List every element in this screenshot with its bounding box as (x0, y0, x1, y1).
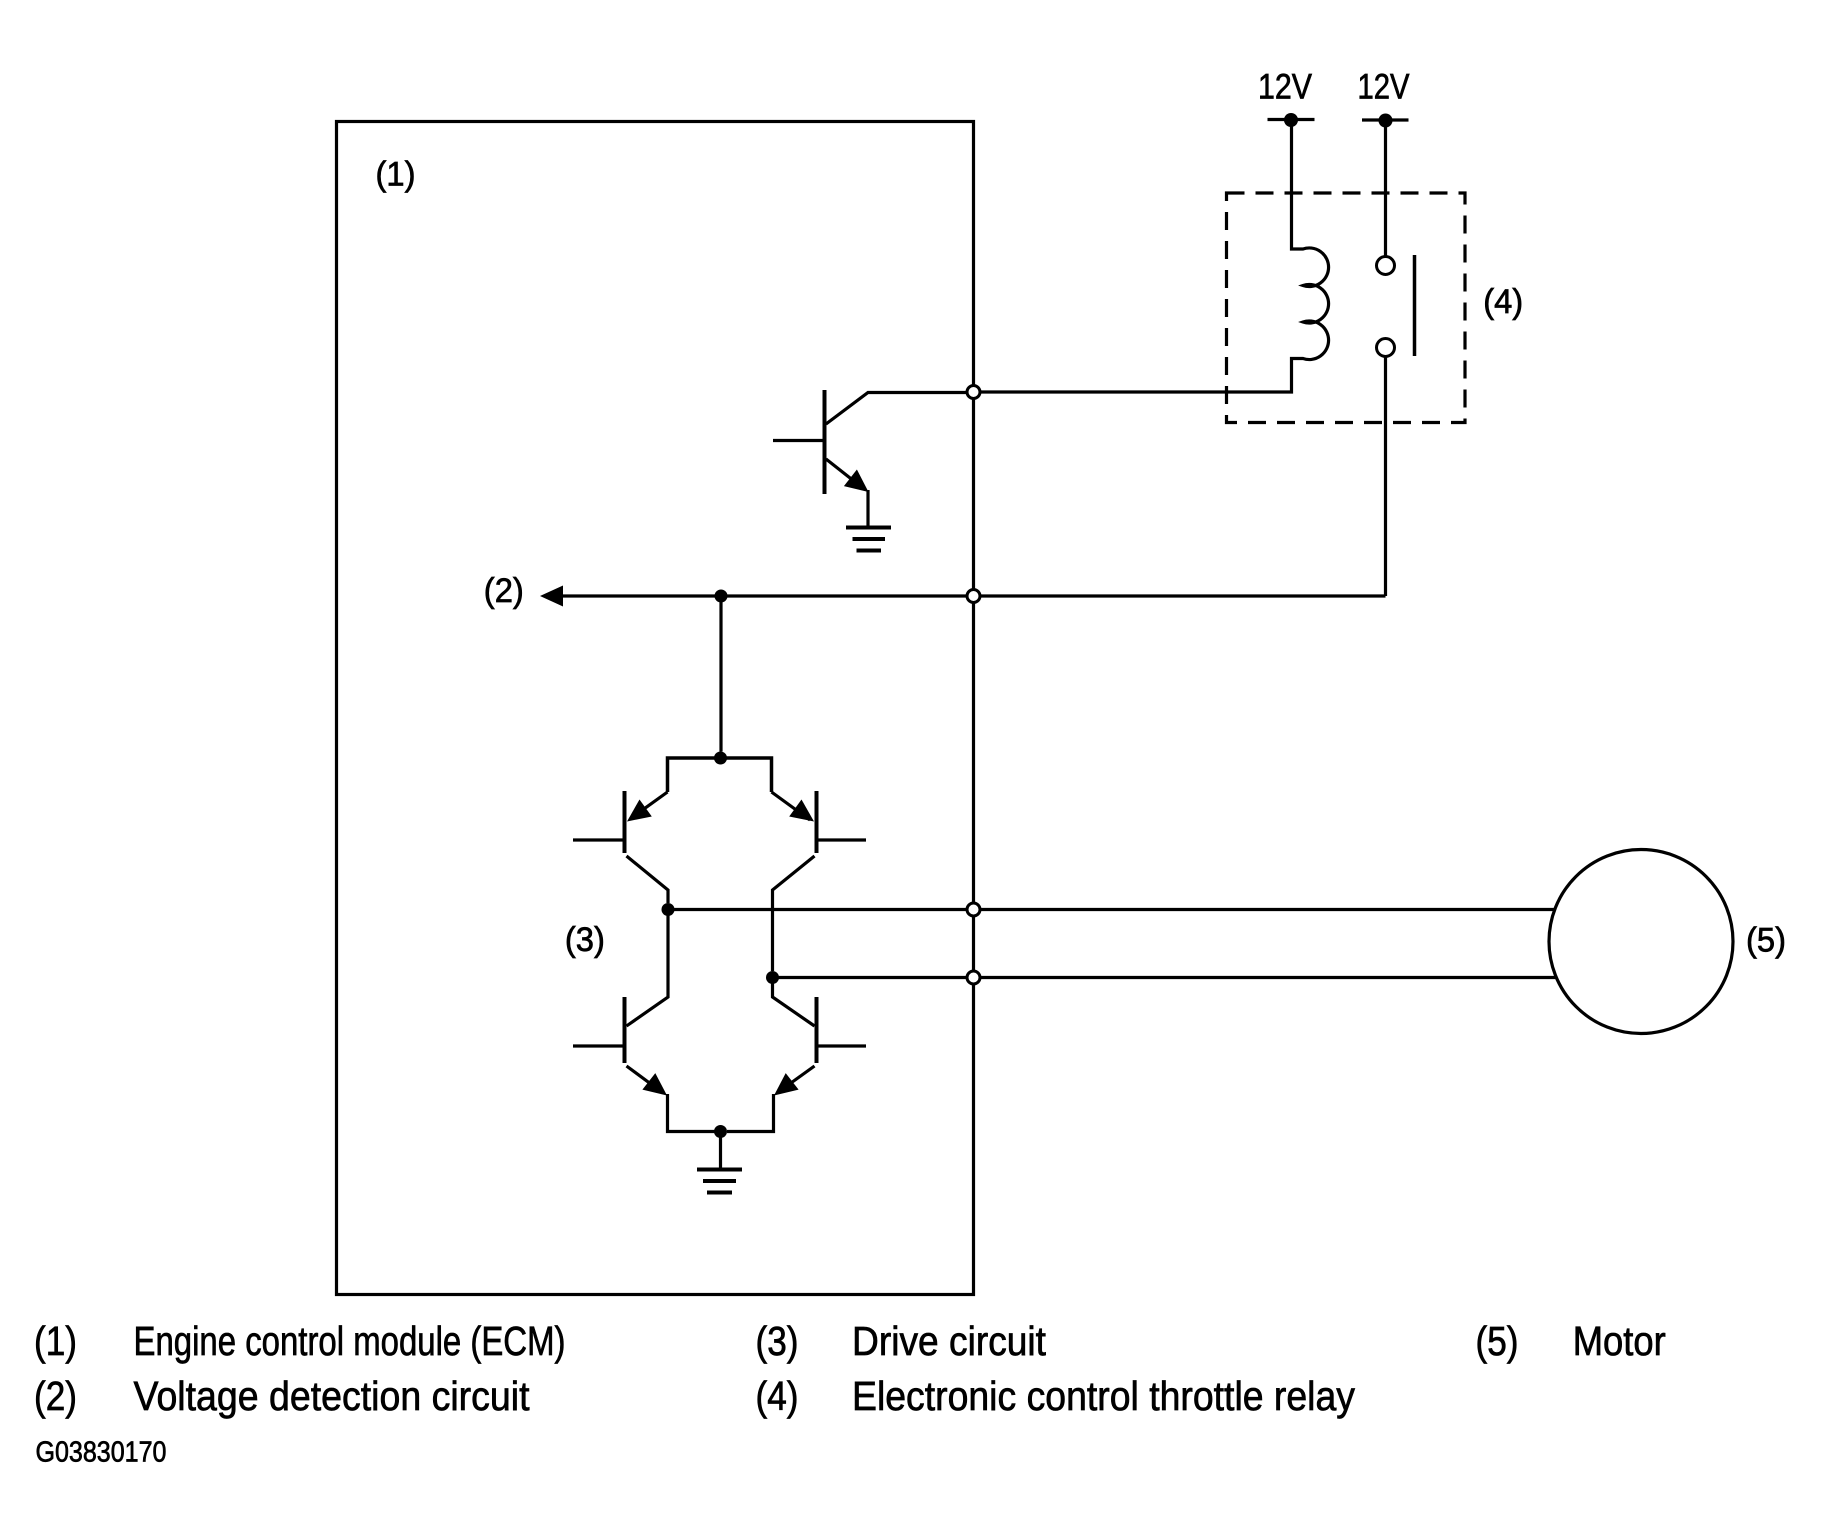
svg-text:(2): (2) (34, 1373, 77, 1419)
svg-text:(4): (4) (756, 1373, 799, 1419)
svg-text:Electronic control throttle re: Electronic control throttle relay (852, 1373, 1355, 1419)
svg-text:(4): (4) (1483, 283, 1523, 321)
svg-text:(5): (5) (1746, 922, 1786, 960)
svg-text:Engine control module (ECM): Engine control module (ECM) (134, 1318, 566, 1364)
svg-text:(3): (3) (756, 1318, 799, 1364)
svg-text:Motor: Motor (1573, 1318, 1666, 1364)
svg-text:(1): (1) (376, 156, 416, 194)
svg-text:12V: 12V (1258, 68, 1313, 107)
svg-text:Drive circuit: Drive circuit (852, 1318, 1047, 1364)
svg-text:(3): (3) (565, 921, 605, 959)
svg-text:(2): (2) (484, 572, 524, 610)
svg-text:12V: 12V (1358, 68, 1411, 107)
svg-text:(1): (1) (34, 1318, 77, 1364)
svg-text:(5): (5) (1476, 1318, 1519, 1364)
svg-text:G03830170: G03830170 (36, 1437, 167, 1469)
svg-text:Voltage detection circuit: Voltage detection circuit (134, 1373, 531, 1419)
